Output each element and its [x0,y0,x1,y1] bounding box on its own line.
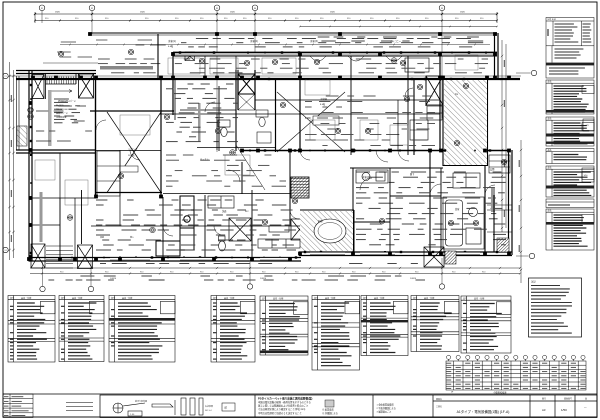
right upper wall a [494,33,496,80]
symbol at 295,201 [292,198,298,204]
wall x175 [174,79,176,120]
symbol at 247,63 [244,60,250,66]
sidebar dark bands [546,110,594,113]
legend table G4 [211,296,255,363]
door arc corridor [228,170,240,182]
wall x494 [493,195,495,252]
sub dim row right [300,26,497,28]
closet wall right [487,79,489,166]
wall x354 tatami [353,210,355,252]
svg-text:1820: 1820 [460,12,466,14]
svg-text:バルコニー: バルコニー [390,40,401,43]
upper small rooms boxes [405,58,429,140]
main title block frame [100,395,597,418]
svg-text:1820: 1820 [330,12,336,14]
X-box balcony left1 [32,75,44,99]
wall x242 mid [241,162,243,194]
X-box lower mid [424,247,444,267]
wall x236 [235,70,237,151]
symbol at 420,87 [417,84,423,90]
sidebar table S5 [546,166,594,197]
shaft wall left [237,70,239,110]
svg-text:PSタイルカーペット張り床施工図作成要領(案): PSタイルカーペット張り床施工図作成要領(案) [258,396,313,400]
text cluster left address block [54,99,80,123]
sidebar value cells [583,119,594,131]
bottom exterior wall right b [299,255,512,257]
legend table G3 [109,296,175,363]
window arcs top [310,56,402,61]
symbol at 504,162 [501,159,507,165]
gray strip washroom [491,188,495,212]
top dim ticks row1 [34,13,36,15]
gray closet strip living [48,90,52,146]
wall x290 stairs [289,150,291,226]
balcony rail left [17,76,20,150]
wall y150 left [96,150,161,152]
wall x158 balcony [157,34,159,80]
svg-text:1820: 1820 [140,12,146,14]
wall upper x173 [172,52,174,115]
symbol at 457,143 [454,140,460,146]
living label box [120,166,138,172]
wall x219 [218,86,220,151]
svg-text:X5: X5 [216,8,218,10]
shaft X lower [238,94,255,110]
bottom grid bubbles [40,262,45,292]
schedule table [446,355,586,390]
closet wall left [442,79,444,166]
text cluster bottom outside labels [48,276,425,280]
gray closet strip left lower [40,192,43,242]
symbol at 30.5,110 [28,107,34,113]
svg-text:X9: X9 [441,8,443,10]
wall x252 lower [251,190,253,257]
grid line1 horiz [9,75,521,77]
wall x351 upper room [350,56,352,155]
lower left partitions [32,198,96,257]
sidebar table S3 [546,117,594,146]
balcony gray band top [100,66,153,70]
right exterior wall lower a [508,150,510,255]
title band top line [3,393,597,395]
X-box bath [426,76,443,105]
G5 dark band [260,351,308,354]
tatami oval table [314,219,346,243]
X-box small top [185,52,195,61]
symbol at 131,52 [128,49,134,55]
gray wall fill top band [173,53,497,56]
window sills [110,252,480,260]
bath area walls [353,168,441,252]
bottom exterior wall left a [29,257,301,259]
wall top upper [90,32,497,34]
wall living left [95,76,97,198]
svg-text:NO.1-4: NO.1-4 [205,410,212,412]
wall topleft block b [16,73,96,75]
left grid bubbles [3,73,8,78]
svg-text:X2: X2 [91,8,93,10]
symbol at 167,117 [164,114,170,120]
porch dark hatch [445,251,456,264]
text cluster upper band labels [181,39,483,47]
legend table G9 [461,296,511,353]
wall x414 [413,79,415,155]
balcony hatch left strip [17,126,27,146]
svg-text:1/50: 1/50 [561,408,567,412]
columns [27,32,511,261]
svg-text:—: — [584,406,587,409]
stairwell diagonals [277,92,345,152]
symbol at 232.5,152.5 [230,150,236,156]
wall x440 upper [439,56,441,151]
WC fixtures center [256,110,271,143]
wall x430 lower [429,150,431,252]
text cluster upper rooms interior [98,59,488,73]
wall x81 lower [81,190,83,244]
wall x353 lower [352,168,354,252]
stamp box small [222,403,235,411]
sidebar small table extra [546,199,594,208]
living room X [107,112,161,193]
stair2 treads [292,179,309,196]
genkan details [487,155,512,232]
part x300 upper [299,56,301,76]
wall x426 bath [425,76,427,106]
washstand boxes [208,196,234,208]
text cluster right lower rooms [356,172,506,245]
wall y147 corridor [197,147,276,149]
small gray box [325,400,334,407]
svg-text:X6: X6 [254,8,256,10]
svg-text:洋室(3): 洋室(3) [310,39,318,43]
wall living right [160,79,162,198]
shaft wall right [254,70,256,110]
right upper wall b [497,33,499,80]
sidebar table S4 [546,149,594,164]
wall top upper inner [90,34,497,36]
wall symbol marks [30,51,498,258]
symbol at 275,62 [272,59,278,65]
wall x300 upper [299,56,301,151]
upper inner partitions [217,100,440,150]
sidebar table S2 [546,80,594,114]
signature lines [66,403,93,411]
revision table [3,394,33,418]
symbol at 476,223 [473,220,479,226]
symbol at 283,105 [280,102,286,108]
symbol at 466,86 [463,83,469,89]
right grid bubbles [516,70,537,75]
left block bottom wall b [16,152,96,154]
notes box [529,278,582,337]
svg-text:X1: X1 [41,8,43,10]
svg-text:W=1820: W=1820 [56,105,64,107]
counter left room [97,151,120,196]
wall y114 corridor upper [160,113,440,115]
kitchen island [156,196,194,256]
symbol at 368,131 [365,128,371,134]
stamp sketch in title [113,398,203,416]
wall x163 kitchen [162,197,164,257]
bathroom tub [443,197,484,249]
stairs dark block [291,177,309,198]
svg-text:洋室(4): 洋室(4) [362,175,370,179]
svg-text:TEL:042-000: TEL:042-000 [56,109,68,111]
text cluster upper outside labels [318,37,484,41]
text cluster left block txt [36,106,92,141]
symbol at 317,62 [314,59,320,65]
text cluster corridor labels [166,155,286,186]
text cluster mid lower rooms [96,200,296,250]
bottom exterior wall right a [299,251,512,253]
wall y193 lower [163,193,300,195]
text cluster upper band left sparse [96,40,166,45]
wall mid y150 [242,150,509,152]
svg-text:WC: WC [245,211,249,213]
svg-text:主寝室: 主寝室 [320,97,328,101]
svg-text:Y1: Y1 [4,76,6,78]
washroom counter [356,170,388,183]
washroom label box [269,226,289,232]
legend table G1 [8,296,55,363]
genkan dark [497,238,509,252]
part x440 upper [439,56,441,76]
text cluster under wall labels [100,263,418,265]
symbol at 121,176 [118,173,124,179]
part x205 upper [204,56,206,76]
clutter detail [35,55,478,205]
top dimension lines [35,12,497,23]
hatched closet tall right [444,80,487,165]
symbol at 265,222 [262,219,268,225]
svg-text:A3: A3 [542,408,546,412]
wall x485 lower [484,150,486,252]
svg-text:和室: 和室 [318,219,323,223]
wall x408 upper room [407,56,409,155]
wall y110 corridor [180,109,236,111]
X-box store1 [31,244,45,268]
legend table G7 [361,296,408,356]
elevator shaft X [238,74,255,94]
svg-text:A1タイプ・電気設備図(1階) (1F-A): A1タイプ・電気設備図(1階) (1F-A) [457,409,510,414]
svg-text:リビング: リビング [128,147,138,151]
rotated dim numbers left/right [11,60,519,252]
bottom dimension lines [30,267,521,275]
closet wall bottom [443,165,488,167]
wall upper rooms inner [173,55,497,57]
hatched tatami room [300,211,353,251]
text cluster left corner labels [57,42,92,57]
corridor wall [91,225,300,227]
stair walls [46,74,77,99]
wall x120 left rooms [119,150,121,226]
X-box closet small [291,219,308,240]
wall topleft block a [16,70,96,72]
toilet [219,236,226,251]
symbol at 30.5,116.5 [28,114,34,120]
svg-text:Y4: Y4 [4,250,6,252]
wall x60 left rooms [59,153,61,257]
sidebar table S6 [546,209,594,250]
wall x275 [275,80,277,152]
text cluster right rooms upper [305,96,435,146]
symbol at 218,131 [215,128,221,134]
sidebar table S1 [546,18,594,79]
washroom counter bottom [258,239,300,248]
G3 dark band [109,318,175,320]
text cluster center rooms [166,84,238,142]
symbol at 202,61 [199,58,205,64]
dim over stair [43,62,98,64]
legend table G8 [411,296,459,352]
left block bottom wall a [16,149,96,151]
bottom exterior wall left b [29,260,301,262]
X-box washer [229,218,251,241]
svg-text:洋室(1): 洋室(1) [168,39,176,43]
right vertical dim lines [501,40,522,283]
interior dim line y42 [60,44,490,46]
dark band S1 [546,63,594,66]
svg-text:1820: 1820 [55,12,61,14]
WC upper [218,120,230,137]
legend table G5 [260,296,308,355]
symbol at 152.5,230 [150,227,156,233]
grid stems [42,11,442,152]
wall y168 mid [350,167,443,169]
left exterior wall a [28,71,30,262]
svg-text:洋室(2): 洋室(2) [250,39,258,43]
wall upper left y111 [90,110,174,112]
door arcs [96,88,495,236]
legend table G2 [59,296,104,362]
symbol at 394,60.5 [391,58,397,64]
living bottom wall [96,192,163,194]
closet gray strip center [198,103,201,142]
porch steps [46,246,73,268]
stair UP arrow [50,90,72,93]
wall upper rooms [173,52,497,54]
left vertical dim lines [8,62,15,260]
top dim ticks row2 [34,20,36,22]
left exterior wall b [31,71,33,262]
stair treads top [47,77,76,85]
symbol at 382,221 [379,218,385,224]
part x236 upper [235,56,237,70]
bath lower boxes [427,106,442,120]
grid bubbles top [39,5,45,11]
right exterior wall lower b [511,150,513,255]
symbol at 338,131 [335,128,341,134]
wall y210 tatami [300,209,354,211]
main long wall [16,78,520,80]
X-box left3 [79,74,94,98]
corridor diagonal [236,145,265,190]
stair label box [313,116,339,125]
legend table G6 [312,296,360,371]
svg-text:1820: 1820 [230,12,236,14]
symbol at 403,63 [400,60,406,66]
symbol at 451,223 [448,220,454,226]
symbol at 61,54 [58,51,64,57]
X-box store2 [78,245,93,269]
wall x205 lower [204,195,206,257]
laundry units right top [453,173,480,188]
symbol at 407,99 [404,96,410,102]
G7 dark band [361,320,408,322]
symbol at 70,217.5 [67,215,73,221]
